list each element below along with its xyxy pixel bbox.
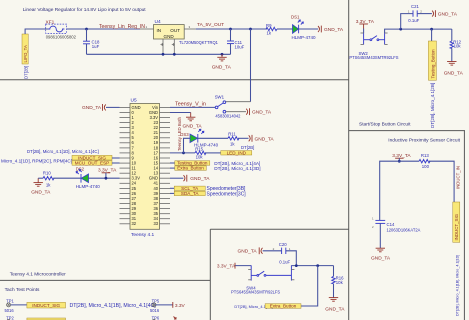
power flag 3.3V_TA left <box>98 167 117 178</box>
switch SW1 <box>215 94 251 118</box>
svg-text:Testing_Button: Testing_Button <box>430 49 435 79</box>
svg-text:TP6: TP6 <box>152 315 160 320</box>
svg-text:Extra_Button: Extra_Button <box>177 166 204 171</box>
resistor R13 <box>419 153 430 169</box>
wire 5V down to SW1 <box>250 29 252 102</box>
op-amp U4 regulator <box>140 19 219 55</box>
node junction 3.3V left <box>105 177 108 180</box>
svg-text:LED_IND: LED_IND <box>227 150 247 155</box>
ground GND_TA under U4 <box>217 54 226 61</box>
svg-text:LIPO_TA: LIPO_TA <box>23 45 28 62</box>
svg-text:DT[2B], Micro_4.1[2B]: DT[2B], Micro_4.1[2B] <box>430 83 435 128</box>
svg-text:IN: IN <box>157 28 162 33</box>
wire U4 out to LED branch <box>196 28 267 30</box>
ground GND_TA teensy right row2 <box>170 113 202 130</box>
wire DS1 to gnd flag <box>299 28 318 30</box>
wire inductive top rail <box>380 161 419 220</box>
svg-text:GND_TA: GND_TA <box>190 176 210 182</box>
svg-text:GND_TA: GND_TA <box>31 189 51 195</box>
svg-text:DT[2B]: DT[2B] <box>23 66 28 79</box>
power flag 3.3V_TA at SW4 <box>217 263 251 270</box>
node junction LED branch <box>182 152 185 155</box>
wire SW4 to R16 <box>291 265 333 267</box>
capacitor C11 <box>227 29 245 54</box>
ground GND_TA left of R10 <box>34 178 43 186</box>
power flag 3.3V test point <box>173 302 186 309</box>
svg-text:Speedometer[3C]: Speedometer[3C] <box>207 191 247 197</box>
wire ground rail <box>87 53 231 55</box>
svg-text:10k: 10k <box>196 155 204 160</box>
wire DS3 to R11 <box>198 137 228 139</box>
svg-text:12063D106KAT2A: 12063D106KAT2A <box>387 228 421 233</box>
svg-text:Linear Voltage Regulator for 1: Linear Voltage Regulator for 14.8V Lipo … <box>23 7 147 13</box>
port SCL_TA <box>170 186 246 192</box>
svg-text:Micro_4.1[1D], RPM[2C], RPM[4C: Micro_4.1[1D], RPM[2C], RPM[4C] <box>1 159 72 164</box>
capacitor C18 <box>83 29 100 54</box>
svg-text:32: 32 <box>132 221 137 226</box>
svg-text:10k: 10k <box>336 280 344 285</box>
port Extra_Button right <box>170 166 261 171</box>
switch SW2 <box>349 33 398 60</box>
capacitor C20 <box>263 242 297 266</box>
svg-text:HLMP-4740: HLMP-4740 <box>292 35 317 40</box>
test point TP6 <box>152 315 176 320</box>
svg-text:0.1uF: 0.1uF <box>408 18 419 23</box>
port Extra_Button bottom <box>265 304 301 309</box>
node junction C21 branch <box>399 28 402 31</box>
svg-text:Extra_Button: Extra_Button <box>270 304 297 309</box>
LED DS1 <box>291 15 316 41</box>
power flag GND_TA after R11 <box>249 135 252 142</box>
svg-text:GND_TA: GND_TA <box>444 70 464 76</box>
resistor R15 <box>195 146 206 159</box>
wire LIPO to fuse <box>25 29 48 34</box>
resistor R9 <box>266 23 277 36</box>
wire R13 to INDUCT_SIG <box>429 161 454 202</box>
power flag 3.3V_TA inductive <box>392 153 411 161</box>
svg-text:1uF: 1uF <box>92 44 100 49</box>
ground GND_TA under C14 <box>376 248 385 252</box>
svg-text:Teensy 4.1: Teensy 4.1 <box>131 232 155 238</box>
port INDUCT_SIG left <box>72 155 120 160</box>
power flag GND_TA teensy left row1 <box>82 104 120 111</box>
svg-text:TP2: TP2 <box>6 315 14 320</box>
svg-text:0986106005802: 0986106005802 <box>46 35 77 40</box>
resistor R12 <box>450 29 462 61</box>
resistor R11 <box>228 132 239 147</box>
node junction at C11 <box>229 28 232 31</box>
svg-text:INDUCT_SIG: INDUCT_SIG <box>454 213 459 240</box>
svg-text:TA_5V_OUT: TA_5V_OUT <box>197 22 224 28</box>
LED DS3 <box>180 129 218 147</box>
svg-text:U4: U4 <box>155 19 161 25</box>
wire SW2 to rail <box>385 29 452 33</box>
svg-text:U5: U5 <box>131 98 137 104</box>
svg-text:GND_TA: GND_TA <box>212 65 232 71</box>
svg-text:GND_TA: GND_TA <box>238 249 258 255</box>
port Testing_Button right <box>170 161 260 166</box>
svg-text:SW1: SW1 <box>215 94 225 99</box>
svg-text:DT[2B], Micro_4.1[1B], Micro_4: DT[2B], Micro_4.1[1B], Micro_4.1[1D] <box>456 255 460 316</box>
svg-text:INDUCT_SIG: INDUCT_SIG <box>32 303 60 308</box>
svg-text:GND_TA: GND_TA <box>255 136 275 142</box>
svg-text:R10: R10 <box>43 171 51 176</box>
svg-text:DT[2B], Micro_4.1[1B], Micro_4: DT[2B], Micro_4.1[1B], Micro_4.1[4C] <box>70 303 157 309</box>
wire R11 to gnd flag <box>238 137 249 139</box>
svg-text:GND_TA: GND_TA <box>252 110 272 116</box>
svg-text:GND: GND <box>164 34 175 39</box>
svg-text:PTS645SM43SMTR92LFS: PTS645SM43SMTR92LFS <box>231 290 280 295</box>
capacitor C21 <box>401 4 432 29</box>
svg-text:Tach Test Points: Tach Test Points <box>5 287 40 293</box>
wire fuse to U4 <box>67 28 140 30</box>
wire R15 to LED_IND <box>205 152 221 154</box>
svg-text:Inductive Proximity Sensor Cir: Inductive Proximity Sensor Circuit <box>388 138 460 144</box>
test point TP5 <box>150 298 173 313</box>
fuse XF1 <box>46 19 77 39</box>
svg-text:DS3: DS3 <box>180 132 189 137</box>
port SDA_TA <box>170 191 246 197</box>
svg-text:3.3V_TA: 3.3V_TA <box>217 263 236 269</box>
svg-text:5016: 5016 <box>5 308 15 313</box>
svg-text:TP5: TP5 <box>152 298 160 303</box>
node junction 3.3V to wire <box>398 160 401 163</box>
svg-text:GND_TA: GND_TA <box>183 123 203 129</box>
wire junction up to DS3 <box>184 138 190 153</box>
LED DS2 <box>76 167 101 190</box>
power flag GND_TA right of C21 <box>432 10 435 17</box>
svg-text:DT[2B], Micro_4.1[1D], Micro_4: DT[2B], Micro_4.1[1D], Micro_4.1[4C] <box>27 149 99 154</box>
svg-text:Teensy_Lin_Reg_IN: Teensy_Lin_Reg_IN <box>99 24 145 30</box>
wire pin13 to junction <box>170 152 195 154</box>
svg-text:Start/Stop Button Circuit: Start/Stop Button Circuit <box>359 121 411 127</box>
ground GND_TA under R16 <box>329 298 338 302</box>
svg-text:C21: C21 <box>411 4 419 9</box>
svg-text:OUT: OUT <box>170 28 180 33</box>
svg-text:C20: C20 <box>279 242 287 247</box>
wire Vin to SW1 <box>170 106 215 108</box>
wire R10 to DS2 <box>53 177 81 179</box>
svg-text:INDUCT_IN: INDUCT_IN <box>455 166 460 189</box>
power flag GND_TA after DS1 <box>318 26 321 33</box>
power flag 3.3V_TA at SW2 <box>356 19 375 33</box>
capacitor C14 <box>372 217 421 249</box>
svg-text:100: 100 <box>422 164 430 169</box>
port Testing_Button vertical <box>428 29 436 128</box>
wire gnd to R10 <box>38 177 43 179</box>
svg-text:DS1: DS1 <box>291 15 300 20</box>
svg-text:45830014042: 45830014042 <box>215 114 241 119</box>
svg-text:PTS645SM43SMTR92LFS: PTS645SM43SMTR92LFS <box>349 55 398 60</box>
resistor R16 <box>332 266 344 298</box>
svg-text:GND_TA: GND_TA <box>82 105 102 111</box>
port INDUCT_SIG test point <box>27 302 156 309</box>
svg-text:GND_TA: GND_TA <box>371 255 391 261</box>
port INDUCT_SIG vertical <box>453 202 460 316</box>
node junction Testing_Button branch <box>430 28 433 31</box>
svg-text:C14: C14 <box>387 222 395 227</box>
node junction C20 <box>295 264 298 267</box>
test point TP2 <box>6 315 65 320</box>
port LED_IND <box>221 150 252 155</box>
switch SW4 <box>231 265 294 294</box>
wire R9 to DS1 <box>277 28 293 30</box>
node junction to SW1 drop <box>249 28 252 31</box>
power flag GND_TA at SW1 <box>246 108 249 115</box>
ground GND_TA under R12 <box>447 62 456 66</box>
svg-text:TL720M50QKTTRQ1: TL720M50QKTTRQ1 <box>179 40 219 45</box>
svg-text:10uF: 10uF <box>235 45 245 50</box>
svg-text:Teensy_V_in: Teensy_V_in <box>175 101 206 107</box>
svg-text:MCU_OUT_ESP: MCU_OUT_ESP <box>75 161 109 166</box>
svg-text:HLMP-4740: HLMP-4740 <box>76 184 101 189</box>
svg-text:TP1: TP1 <box>6 298 14 303</box>
port MCU_OUT_ESP left <box>72 161 120 166</box>
svg-text:0.1uF: 0.1uF <box>279 259 290 264</box>
svg-text:XF1: XF1 <box>46 19 55 25</box>
svg-text:GND_TA: GND_TA <box>438 12 458 18</box>
svg-text:Teensy 4.1 Microcontroller: Teensy 4.1 Microcontroller <box>10 272 66 278</box>
test point TP1 <box>5 298 27 313</box>
wire down to Extra_Button <box>301 266 318 306</box>
svg-text:33: 33 <box>153 221 158 226</box>
power flag GND_TA teensy right row15 <box>170 175 210 182</box>
svg-text:10k: 10k <box>454 44 462 49</box>
svg-text:SDA_TA: SDA_TA <box>181 191 199 196</box>
node junction Extra_Button <box>316 264 319 267</box>
svg-text:GND_TA: GND_TA <box>324 27 344 33</box>
svg-text:R11: R11 <box>228 132 236 137</box>
svg-text:R13: R13 <box>421 153 429 158</box>
svg-text:DT[2B], Micro_4.1[3D]: DT[2B], Micro_4.1[3D] <box>214 166 260 171</box>
svg-text:5016: 5016 <box>150 308 160 313</box>
svg-text:GND_TA: GND_TA <box>325 307 345 313</box>
node junction at C18 <box>85 28 88 31</box>
port DT[2B]_LIPO_TA <box>22 34 28 79</box>
op-amp U5 Teensy 4.1 <box>120 98 171 239</box>
resistor R10 <box>43 171 54 188</box>
svg-text:3.3V: 3.3V <box>175 303 186 309</box>
svg-text:DT[2B]: DT[2B] <box>241 145 254 150</box>
wire DS2 to 3.3V junction to pin <box>89 177 120 179</box>
